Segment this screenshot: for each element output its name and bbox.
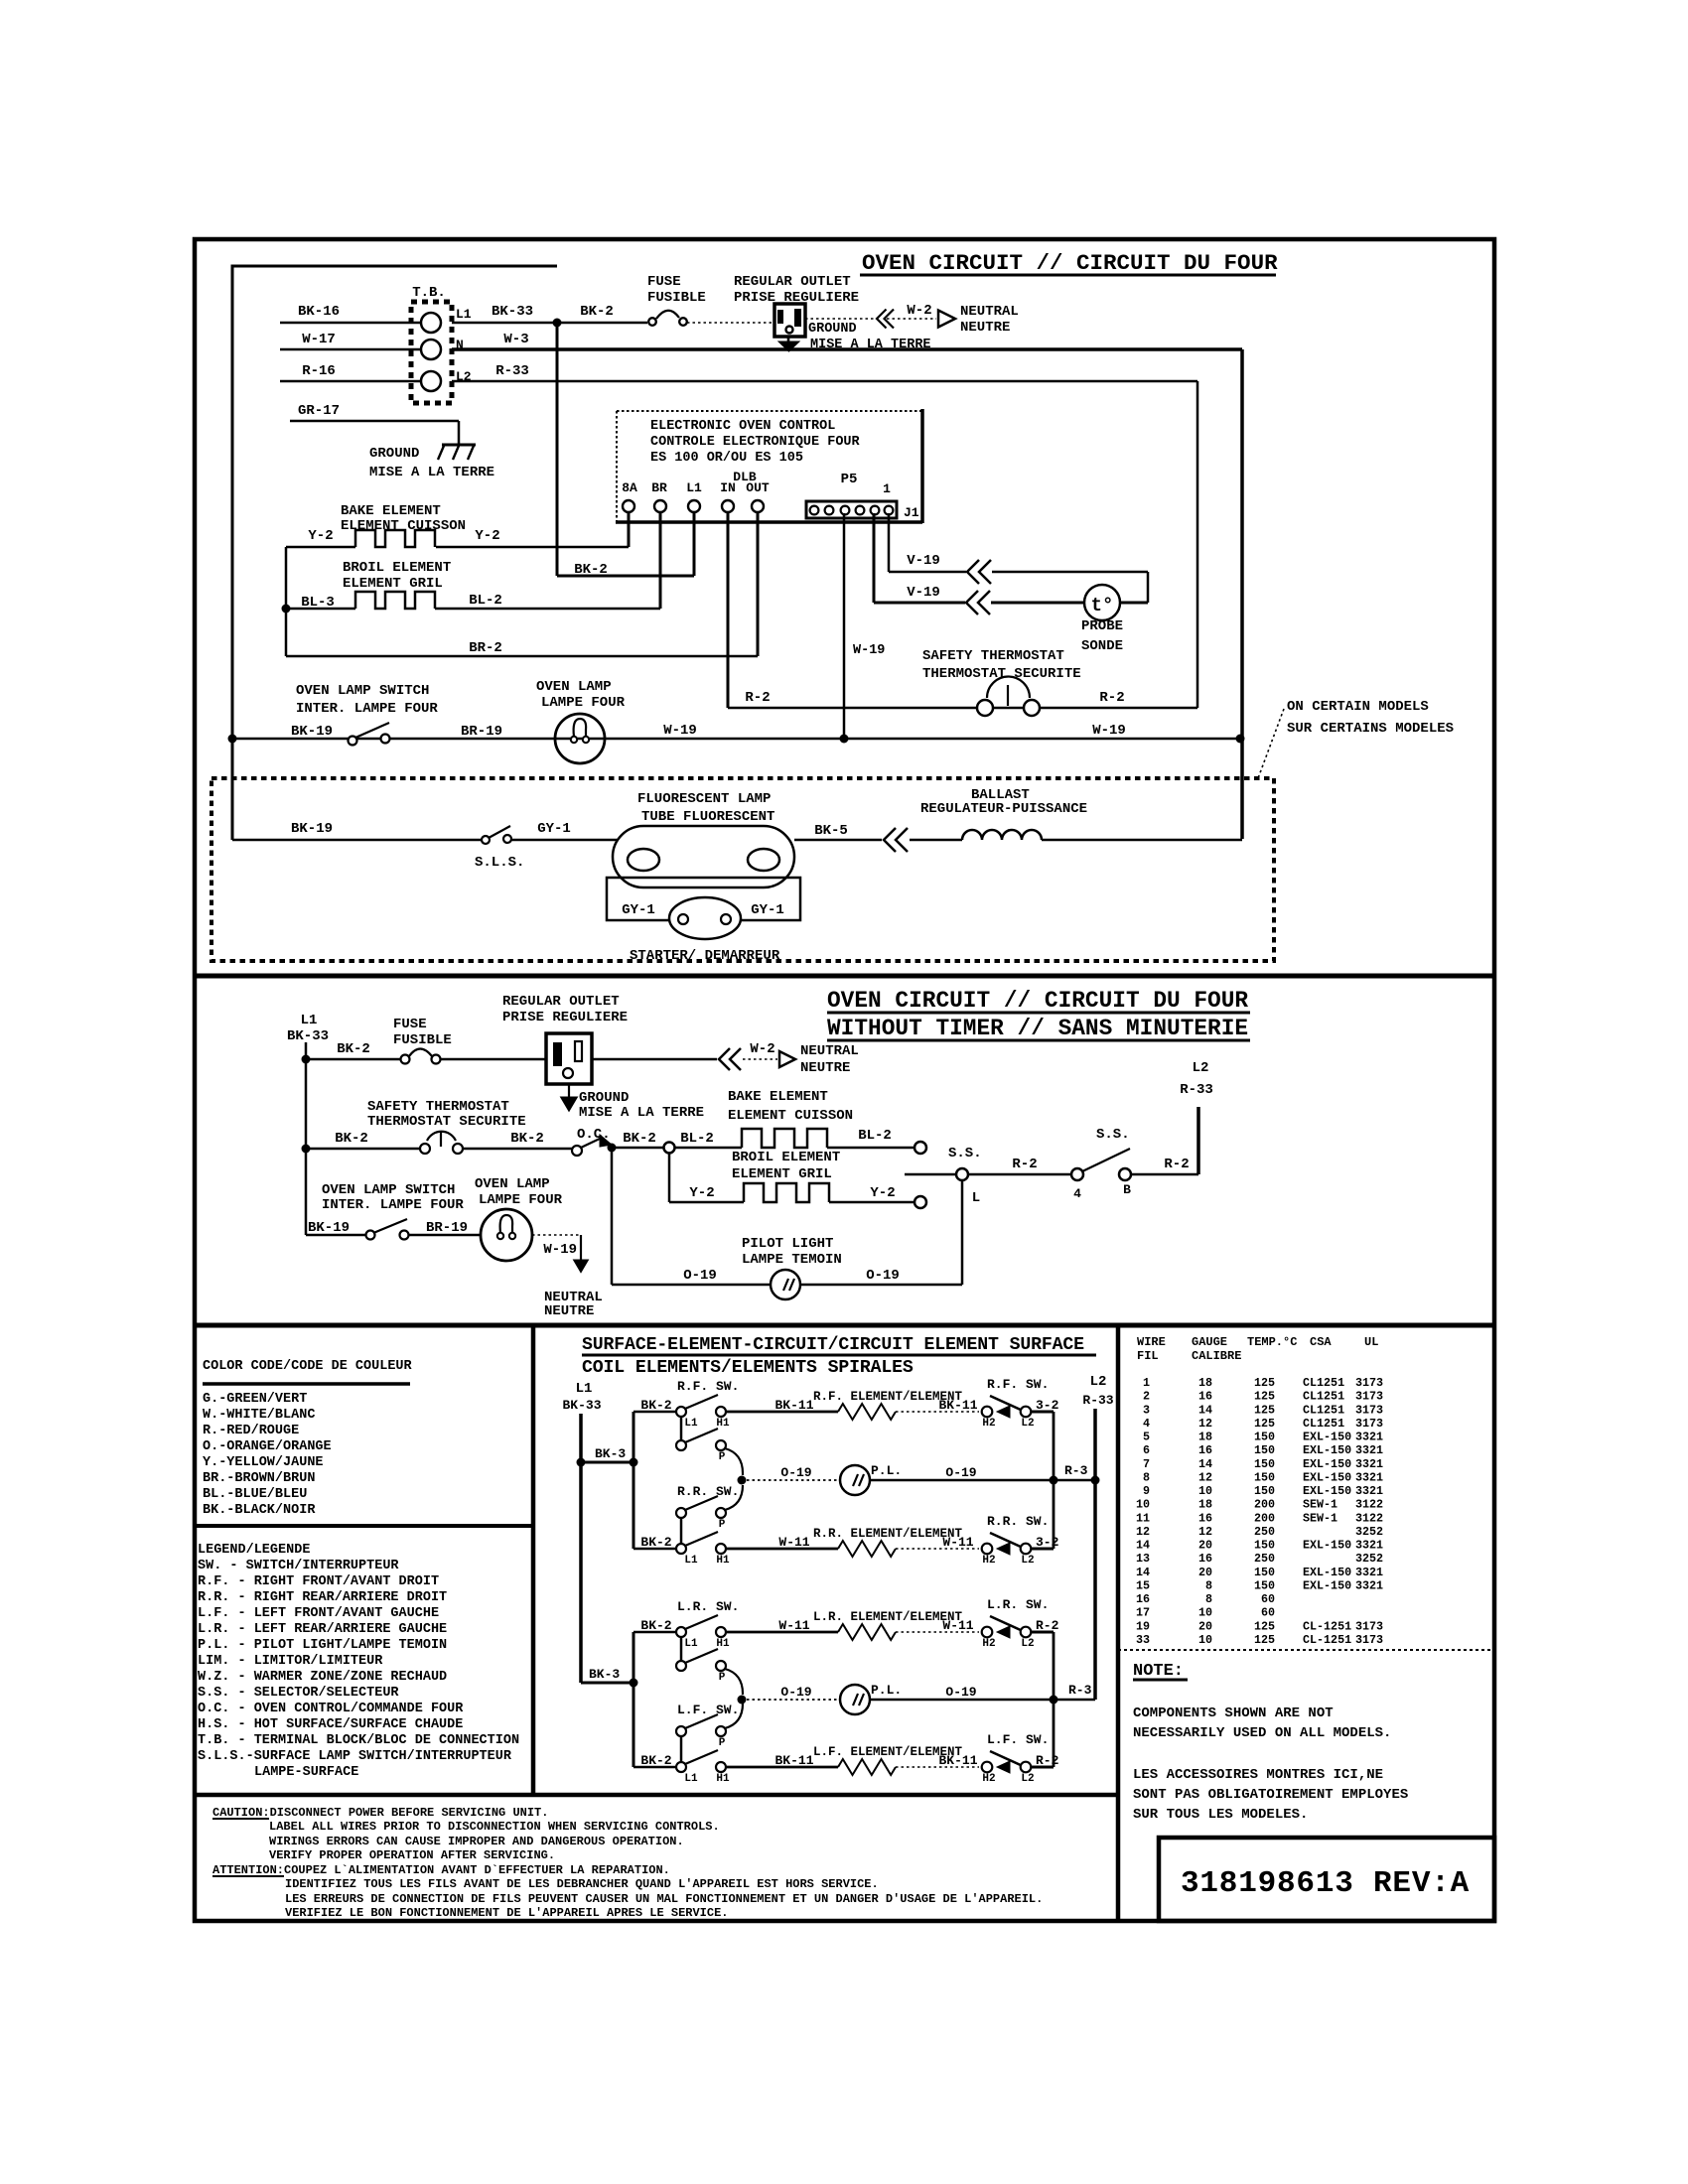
svg-text:EXL-150: EXL-150 bbox=[1303, 1539, 1351, 1553]
svg-text:3321: 3321 bbox=[1355, 1457, 1383, 1471]
svg-text:SUR TOUS LES MODELES.: SUR TOUS LES MODELES. bbox=[1133, 1807, 1308, 1823]
wire BK-3 upper bbox=[581, 1461, 633, 1464]
svg-text:CL1251: CL1251 bbox=[1303, 1403, 1344, 1417]
svg-text:L1: L1 bbox=[684, 1418, 698, 1430]
svg-text:EXL-150: EXL-150 bbox=[1303, 1566, 1351, 1579]
svg-text:R-3: R-3 bbox=[1068, 1683, 1092, 1698]
svg-text:O.C. - OVEN CONTROL/COMMANDE F: O.C. - OVEN CONTROL/COMMANDE FOUR bbox=[198, 1702, 464, 1716]
svg-text:W-19: W-19 bbox=[663, 723, 697, 739]
svg-text:P.L.: P.L. bbox=[871, 1463, 902, 1478]
svg-text:O-19: O-19 bbox=[683, 1268, 717, 1284]
node W-19 right junction bbox=[1236, 735, 1245, 744]
svg-text:t°: t° bbox=[1091, 595, 1114, 616]
svg-text:INTER. LAMPE FOUR: INTER. LAMPE FOUR bbox=[296, 701, 438, 717]
svg-text:R-3: R-3 bbox=[1064, 1463, 1088, 1478]
svg-text:16: 16 bbox=[1198, 1443, 1212, 1457]
divider color-code/legend bbox=[195, 1524, 533, 1528]
svg-text:L2: L2 bbox=[1193, 1060, 1209, 1076]
svg-text:8: 8 bbox=[1205, 1592, 1212, 1606]
svg-text:OVEN LAMP: OVEN LAMP bbox=[536, 679, 612, 695]
svg-text:GY-1: GY-1 bbox=[751, 902, 784, 918]
svg-text:3173: 3173 bbox=[1355, 1619, 1383, 1633]
svg-text:L.R. SW.: L.R. SW. bbox=[987, 1597, 1049, 1612]
svg-text:BK-16: BK-16 bbox=[298, 304, 340, 320]
svg-text:3173: 3173 bbox=[1355, 1376, 1383, 1390]
svg-text:W.Z. - WARMER ZONE/ZONE RECHAU: W.Z. - WARMER ZONE/ZONE RECHAUD bbox=[198, 1670, 447, 1685]
svg-text:VERIFY PROPER OPERATION AFTER: VERIFY PROPER OPERATION AFTER SERVICING. bbox=[269, 1848, 555, 1862]
pilot light line lower bbox=[738, 1696, 747, 1705]
svg-text:BK-33: BK-33 bbox=[492, 304, 533, 320]
svg-text:OVEN CIRCUIT // CIRCUIT DU FOU: OVEN CIRCUIT // CIRCUIT DU FOUR bbox=[862, 250, 1278, 276]
svg-text:SONT PAS OBLIGATOIREMENT EMPLO: SONT PAS OBLIGATOIREMENT EMPLOYES bbox=[1133, 1787, 1408, 1803]
svg-text:H2: H2 bbox=[982, 1555, 995, 1567]
svg-text:3321: 3321 bbox=[1355, 1566, 1383, 1579]
svg-text:LABEL ALL WIRES PRIOR TO DISCO: LABEL ALL WIRES PRIOR TO DISCONNECTION W… bbox=[269, 1820, 720, 1834]
ground symbol below outlet bbox=[787, 337, 790, 342]
svg-text:125: 125 bbox=[1254, 1376, 1275, 1390]
svg-text:WITHOUT TIMER // SANS MINUTERI: WITHOUT TIMER // SANS MINUTERIE bbox=[827, 1016, 1248, 1041]
svg-text:OVEN LAMP: OVEN LAMP bbox=[475, 1176, 550, 1192]
svg-text:IN: IN bbox=[720, 480, 736, 495]
svg-text:P.L.: P.L. bbox=[871, 1683, 902, 1698]
svg-text:LAMPE FOUR: LAMPE FOUR bbox=[479, 1192, 563, 1208]
svg-text:150: 150 bbox=[1254, 1578, 1275, 1592]
svg-text:Y-2: Y-2 bbox=[689, 1185, 714, 1201]
svg-text:FUSIBLE: FUSIBLE bbox=[647, 290, 706, 306]
node left lamp junction bbox=[228, 735, 237, 744]
bus L1 vertical bbox=[579, 1414, 583, 1683]
svg-text:5: 5 bbox=[1143, 1431, 1150, 1444]
svg-text:BK-19: BK-19 bbox=[308, 1220, 350, 1236]
svg-text:W-19: W-19 bbox=[853, 643, 885, 658]
switch lr-p pilot contacts bbox=[676, 1661, 686, 1671]
svg-text:GR-17: GR-17 bbox=[298, 403, 340, 419]
svg-text:18: 18 bbox=[1198, 1498, 1212, 1512]
svg-text:3173: 3173 bbox=[1355, 1633, 1383, 1647]
svg-text:FUSE: FUSE bbox=[393, 1017, 427, 1032]
svg-text:GY-1: GY-1 bbox=[537, 821, 571, 837]
svg-text:GY-1: GY-1 bbox=[622, 902, 655, 918]
svg-text:H2: H2 bbox=[982, 1418, 995, 1430]
wire fuse to outlet bbox=[687, 322, 774, 324]
svg-text:PROBE: PROBE bbox=[1081, 618, 1123, 634]
svg-text:150: 150 bbox=[1254, 1484, 1275, 1498]
svg-text:H1: H1 bbox=[716, 1555, 730, 1567]
svg-text:BK-19: BK-19 bbox=[291, 821, 333, 837]
dashed box on-certain-models bbox=[211, 778, 1274, 961]
svg-text:SEW-1: SEW-1 bbox=[1303, 1498, 1337, 1512]
svg-text:P.L. - PILOT LIGHT/LAMPE TEMOI: P.L. - PILOT LIGHT/LAMPE TEMOIN bbox=[198, 1638, 447, 1653]
svg-text:TEMP.°C: TEMP.°C bbox=[1247, 1335, 1297, 1349]
L.R. vertical L1 link bbox=[680, 1637, 683, 1661]
terminal circle broil right bbox=[914, 1196, 926, 1208]
wire BK-3 lower bbox=[581, 1682, 633, 1685]
svg-text:L2: L2 bbox=[1021, 1638, 1034, 1650]
wire W-2 neutral bbox=[805, 318, 874, 320]
svg-text:ELEMENT GRIL: ELEMENT GRIL bbox=[732, 1166, 832, 1182]
svg-text:OVEN LAMP SWITCH: OVEN LAMP SWITCH bbox=[322, 1182, 455, 1198]
svg-text:BK-2: BK-2 bbox=[337, 1041, 370, 1057]
svg-text:L1: L1 bbox=[684, 1555, 698, 1567]
node W-19/J1 junction bbox=[840, 735, 849, 744]
bus vertical lower group bbox=[633, 1632, 635, 1767]
svg-text:125: 125 bbox=[1254, 1619, 1275, 1633]
wire R-2 from pin IN bbox=[727, 512, 730, 708]
svg-text:BK-3: BK-3 bbox=[589, 1667, 620, 1682]
svg-text:318198613 REV:A: 318198613 REV:A bbox=[1181, 1866, 1470, 1901]
svg-text:FUSE: FUSE bbox=[647, 274, 681, 290]
svg-text:3122: 3122 bbox=[1355, 1498, 1383, 1512]
node O.C. junction bbox=[608, 1144, 617, 1153]
svg-text:250: 250 bbox=[1254, 1552, 1275, 1566]
wire BK-19 fluorescent bbox=[232, 839, 483, 842]
wire W-3 bbox=[452, 347, 1242, 351]
wire W-2 neutral 2 bbox=[592, 1058, 717, 1061]
svg-text:33: 33 bbox=[1136, 1633, 1150, 1647]
wire R-16 bbox=[280, 380, 421, 383]
svg-text:P: P bbox=[719, 1672, 726, 1684]
svg-text:REGULAR OUTLET: REGULAR OUTLET bbox=[734, 274, 851, 290]
switch lr right contacts bbox=[982, 1627, 993, 1638]
svg-text:EXL-150: EXL-150 bbox=[1303, 1470, 1351, 1484]
right circuit vertical lower bbox=[1053, 1632, 1055, 1767]
svg-text:NEUTRAL: NEUTRAL bbox=[800, 1043, 859, 1059]
wire V-19 lower bbox=[873, 513, 876, 603]
svg-text:S.S. - SELECTOR/SELECTEUR: S.S. - SELECTOR/SELECTEUR bbox=[198, 1686, 399, 1701]
terminal L2 bbox=[421, 371, 441, 391]
divider below oven circuit section bbox=[195, 974, 1494, 979]
svg-text:2: 2 bbox=[1143, 1390, 1150, 1404]
svg-text:L.F. SW.: L.F. SW. bbox=[677, 1703, 739, 1717]
svg-text:10: 10 bbox=[1198, 1606, 1212, 1620]
svg-text:ELECTRONIC OVEN CONTROL: ELECTRONIC OVEN CONTROL bbox=[650, 419, 835, 434]
svg-text:W-19: W-19 bbox=[1092, 723, 1126, 739]
vertical divider surface/table bbox=[1116, 1325, 1121, 1921]
svg-text:LEGEND/LEGENDE: LEGEND/LEGENDE bbox=[198, 1543, 310, 1558]
svg-text:COMPONENTS SHOWN ARE NOT: COMPONENTS SHOWN ARE NOT bbox=[1133, 1706, 1334, 1721]
svg-text:R.F. - RIGHT FRONT/AVANT DROIT: R.F. - RIGHT FRONT/AVANT DROIT bbox=[198, 1574, 439, 1589]
svg-text:T.B. - TERMINAL BLOCK/BLOC DE: T.B. - TERMINAL BLOCK/BLOC DE CONNECTION bbox=[198, 1733, 519, 1748]
svg-text:OVEN CIRCUIT // CIRCUIT DU FOU: OVEN CIRCUIT // CIRCUIT DU FOUR bbox=[827, 988, 1248, 1014]
svg-text:3321: 3321 bbox=[1355, 1470, 1383, 1484]
svg-text:BL.-BLUE/BLEU: BL.-BLUE/BLEU bbox=[203, 1487, 307, 1502]
svg-text:3122: 3122 bbox=[1355, 1511, 1383, 1525]
svg-text:VERIFIEZ LE BON FONCTIONNEMENT: VERIFIEZ LE BON FONCTIONNEMENT DE L'APPA… bbox=[285, 1906, 728, 1920]
svg-text:L1: L1 bbox=[576, 1381, 593, 1397]
svg-text:R-2: R-2 bbox=[1012, 1157, 1037, 1172]
svg-text:1: 1 bbox=[883, 481, 891, 496]
svg-text:GROUND: GROUND bbox=[808, 322, 857, 337]
svg-text:12: 12 bbox=[1136, 1525, 1150, 1539]
wire BK-2 to fuse bbox=[557, 322, 647, 325]
svg-text:Y-2: Y-2 bbox=[308, 528, 333, 544]
svg-text:12: 12 bbox=[1198, 1470, 1212, 1484]
node junction BK-33/BK-2 bbox=[553, 319, 562, 328]
node BL-3 junction bbox=[282, 605, 291, 614]
svg-text:STARTER/ DEMARREUR: STARTER/ DEMARREUR bbox=[630, 948, 780, 964]
svg-text:R.F. SW.: R.F. SW. bbox=[987, 1377, 1049, 1392]
svg-text:MISE A LA TERRE: MISE A LA TERRE bbox=[579, 1105, 704, 1121]
svg-text:ELEMENT CUISSON: ELEMENT CUISSON bbox=[728, 1108, 853, 1124]
svg-text:14: 14 bbox=[1198, 1403, 1212, 1417]
part number box bbox=[1159, 1838, 1494, 1921]
svg-text:12: 12 bbox=[1198, 1525, 1212, 1539]
svg-text:PRISE REGULIERE: PRISE REGULIERE bbox=[502, 1010, 628, 1025]
svg-text:BK.-BLACK/NOIR: BK.-BLACK/NOIR bbox=[203, 1503, 316, 1518]
wire to broil bbox=[668, 1154, 671, 1202]
svg-text:3321: 3321 bbox=[1355, 1443, 1383, 1457]
svg-text:R.F. SW.: R.F. SW. bbox=[677, 1379, 739, 1394]
svg-text:INTER. LAMPE FOUR: INTER. LAMPE FOUR bbox=[322, 1197, 464, 1213]
switch rr-p pilot contacts bbox=[676, 1508, 686, 1518]
svg-text:3252: 3252 bbox=[1355, 1552, 1383, 1566]
svg-text:BL-2: BL-2 bbox=[680, 1131, 714, 1147]
svg-text:L.F. SW.: L.F. SW. bbox=[987, 1732, 1049, 1747]
svg-text:EXL-150: EXL-150 bbox=[1303, 1443, 1351, 1457]
svg-text:IDENTIFIEZ TOUS LES FILS AVANT: IDENTIFIEZ TOUS LES FILS AVANT DE LES DE… bbox=[285, 1877, 879, 1891]
svg-text:S.L.S.: S.L.S. bbox=[475, 855, 524, 871]
svg-text:OUT: OUT bbox=[746, 480, 770, 495]
svg-text:W-3: W-3 bbox=[503, 332, 528, 347]
svg-text:L1: L1 bbox=[456, 307, 472, 322]
terminal N bbox=[421, 340, 441, 359]
svg-text:150: 150 bbox=[1254, 1470, 1275, 1484]
svg-text:FIL: FIL bbox=[1137, 1349, 1159, 1363]
svg-text:O-19: O-19 bbox=[945, 1685, 976, 1700]
svg-text:V-19: V-19 bbox=[907, 585, 940, 601]
page outer border frame bbox=[195, 239, 1494, 1921]
svg-text:BROIL ELEMENT: BROIL ELEMENT bbox=[343, 560, 451, 576]
svg-text:BR: BR bbox=[651, 480, 667, 495]
svg-text:MISE A LA TERRE: MISE A LA TERRE bbox=[369, 465, 494, 480]
svg-text:BK-33: BK-33 bbox=[287, 1028, 329, 1044]
switch rf-p pilot contacts bbox=[676, 1440, 686, 1450]
svg-text:THERMOSTAT SECURITE: THERMOSTAT SECURITE bbox=[922, 666, 1081, 682]
svg-text:R-33: R-33 bbox=[495, 363, 529, 379]
switch rr right contacts bbox=[982, 1544, 993, 1555]
svg-text:16: 16 bbox=[1198, 1511, 1212, 1525]
svg-text:NEUTRE: NEUTRE bbox=[800, 1060, 850, 1076]
svg-text:B: B bbox=[1123, 1182, 1131, 1197]
svg-text:BR-19: BR-19 bbox=[461, 724, 502, 740]
svg-text:L.R. ELEMENT/ELEMENT: L.R. ELEMENT/ELEMENT bbox=[813, 1610, 963, 1624]
svg-text:BAKE ELEMENT: BAKE ELEMENT bbox=[341, 503, 441, 519]
svg-text:SURFACE-ELEMENT-CIRCUIT/CIRCUI: SURFACE-ELEMENT-CIRCUIT/CIRCUIT ELEMENT … bbox=[582, 1335, 1084, 1355]
svg-text:16: 16 bbox=[1198, 1390, 1212, 1404]
svg-text:OVEN LAMP SWITCH: OVEN LAMP SWITCH bbox=[296, 683, 429, 699]
svg-text:18: 18 bbox=[1198, 1431, 1212, 1444]
svg-text:14: 14 bbox=[1136, 1566, 1150, 1579]
svg-text:T.B.: T.B. bbox=[412, 285, 446, 301]
svg-text:REGULATEUR-PUISSANCE: REGULATEUR-PUISSANCE bbox=[920, 801, 1087, 817]
svg-text:4: 4 bbox=[1073, 1186, 1081, 1201]
svg-text:REGULAR OUTLET: REGULAR OUTLET bbox=[502, 994, 620, 1010]
R.R. vertical L1 link bbox=[680, 1518, 683, 1544]
svg-text:BK-33: BK-33 bbox=[562, 1398, 601, 1413]
svg-text:NEUTRAL: NEUTRAL bbox=[960, 304, 1019, 320]
svg-text:S.S.: S.S. bbox=[948, 1146, 982, 1161]
svg-text:BK-19: BK-19 bbox=[291, 724, 333, 740]
svg-text:W-11: W-11 bbox=[942, 1535, 973, 1550]
L.F. vertical L1 link bbox=[680, 1736, 683, 1762]
svg-text:GROUND: GROUND bbox=[579, 1090, 629, 1106]
svg-text:TUBE FLUORESCENT: TUBE FLUORESCENT bbox=[641, 809, 774, 825]
svg-text:UL: UL bbox=[1364, 1335, 1378, 1349]
svg-text:O-19: O-19 bbox=[780, 1465, 811, 1480]
svg-text:Y-2: Y-2 bbox=[870, 1185, 895, 1201]
svg-text:LES ERREURS DE CONNECTION DE F: LES ERREURS DE CONNECTION DE FILS PEUVEN… bbox=[285, 1892, 1043, 1906]
svg-text:6: 6 bbox=[1143, 1443, 1150, 1457]
svg-text:EXL-150: EXL-150 bbox=[1303, 1431, 1351, 1444]
svg-text:V-19: V-19 bbox=[907, 553, 940, 569]
svg-text:R-16: R-16 bbox=[302, 363, 336, 379]
svg-text:P: P bbox=[719, 1519, 726, 1531]
svg-text:8A: 8A bbox=[622, 480, 637, 495]
svg-text:SEW-1: SEW-1 bbox=[1303, 1511, 1337, 1525]
svg-text:ELEMENT GRIL: ELEMENT GRIL bbox=[343, 576, 443, 592]
svg-text:H1: H1 bbox=[716, 1418, 730, 1430]
svg-text:12: 12 bbox=[1198, 1417, 1212, 1431]
wire Y-2 bake to pin 8A bbox=[628, 512, 631, 547]
svg-text:L2: L2 bbox=[1021, 1555, 1034, 1567]
svg-text:14: 14 bbox=[1198, 1457, 1212, 1471]
wire BL-2 to pin BR bbox=[435, 608, 660, 611]
svg-text:GROUND: GROUND bbox=[369, 446, 419, 462]
switch lf-p pilot contacts bbox=[676, 1726, 686, 1736]
svg-text:BK-2: BK-2 bbox=[335, 1131, 368, 1147]
svg-text:BL-2: BL-2 bbox=[858, 1128, 892, 1144]
svg-text:BK-5: BK-5 bbox=[814, 823, 848, 839]
svg-text:R-2: R-2 bbox=[1099, 690, 1124, 706]
svg-text:W.-WHITE/BLANC: W.-WHITE/BLANC bbox=[203, 1408, 315, 1423]
svg-text:LES ACCESSOIRES MONTRES ICI,NE: LES ACCESSOIRES MONTRES ICI,NE bbox=[1133, 1767, 1383, 1783]
svg-text:125: 125 bbox=[1254, 1403, 1275, 1417]
surface lamp switch S.L.S. bbox=[482, 836, 490, 844]
svg-text:ES 100 OR/OU ES 105: ES 100 OR/OU ES 105 bbox=[650, 451, 803, 466]
probe temperature sensor bbox=[1120, 602, 1148, 605]
electronic oven control U1 box bbox=[617, 410, 922, 412]
divider above caution block bbox=[195, 1793, 1118, 1798]
svg-text:Y.-YELLOW/JAUNE: Y.-YELLOW/JAUNE bbox=[203, 1455, 324, 1470]
svg-text:O-19: O-19 bbox=[866, 1268, 900, 1284]
svg-text:8: 8 bbox=[1143, 1470, 1150, 1484]
svg-text:G.-GREEN/VERT: G.-GREEN/VERT bbox=[203, 1392, 307, 1407]
svg-text:3252: 3252 bbox=[1355, 1525, 1383, 1539]
svg-text:O.-ORANGE/ORANGE: O.-ORANGE/ORANGE bbox=[203, 1439, 332, 1454]
svg-text:L.R. SW.: L.R. SW. bbox=[677, 1599, 739, 1614]
svg-text:150: 150 bbox=[1254, 1566, 1275, 1579]
svg-text:11: 11 bbox=[1136, 1511, 1150, 1525]
svg-text:BAKE ELEMENT: BAKE ELEMENT bbox=[728, 1089, 828, 1105]
svg-text:P: P bbox=[719, 1451, 726, 1463]
svg-text:250: 250 bbox=[1254, 1525, 1275, 1539]
vertical divider legend/surface bbox=[531, 1325, 536, 1795]
svg-text:10: 10 bbox=[1198, 1633, 1212, 1647]
wire R-33 bbox=[452, 380, 1197, 383]
divider below without-timer section bbox=[195, 1323, 1494, 1328]
svg-text:CL-1251: CL-1251 bbox=[1303, 1633, 1351, 1647]
svg-text:150: 150 bbox=[1254, 1431, 1275, 1444]
svg-text:EXL-150: EXL-150 bbox=[1303, 1484, 1351, 1498]
starter DEMARREUR bbox=[669, 897, 741, 939]
svg-text:SAFETY THERMOSTAT: SAFETY THERMOSTAT bbox=[367, 1099, 509, 1115]
svg-text:H.S. - HOT SURFACE/SURFACE CHA: H.S. - HOT SURFACE/SURFACE CHAUDE bbox=[198, 1717, 463, 1732]
svg-text:R.R. SW.: R.R. SW. bbox=[677, 1484, 739, 1499]
svg-text:R-2: R-2 bbox=[745, 690, 770, 706]
svg-text:L: L bbox=[972, 1190, 980, 1206]
svg-text:125: 125 bbox=[1254, 1417, 1275, 1431]
svg-text:3173: 3173 bbox=[1355, 1390, 1383, 1404]
svg-text:CAUTION:DISCONNECT POWER BEFOR: CAUTION:DISCONNECT POWER BEFORE SERVICIN… bbox=[212, 1806, 548, 1820]
svg-text:LAMPE FOUR: LAMPE FOUR bbox=[541, 695, 626, 711]
svg-text:S.S.: S.S. bbox=[1096, 1127, 1130, 1143]
svg-text:BK-3: BK-3 bbox=[595, 1446, 626, 1461]
svg-text:LIM. - LIMITOR/LIMITEUR: LIM. - LIMITOR/LIMITEUR bbox=[198, 1654, 383, 1669]
svg-text:CONTROLE ELECTRONIQUE FOUR: CONTROLE ELECTRONIQUE FOUR bbox=[650, 435, 861, 450]
svg-text:S.L.S.-SURFACE LAMP SWITCH/INT: S.L.S.-SURFACE LAMP SWITCH/INTERRUPTEUR bbox=[198, 1749, 512, 1764]
wire W-17 bbox=[280, 348, 421, 351]
svg-text:H1: H1 bbox=[716, 1638, 730, 1650]
wire from bake down left bbox=[285, 547, 288, 656]
svg-text:BR-19: BR-19 bbox=[426, 1220, 468, 1236]
right circuit vertical upper bbox=[1053, 1412, 1055, 1549]
svg-text:17: 17 bbox=[1136, 1606, 1150, 1620]
svg-text:3321: 3321 bbox=[1355, 1484, 1383, 1498]
svg-text:FLUORESCENT LAMP: FLUORESCENT LAMP bbox=[637, 791, 771, 807]
svg-text:W-2: W-2 bbox=[750, 1041, 774, 1057]
svg-text:18: 18 bbox=[1198, 1376, 1212, 1390]
svg-text:1: 1 bbox=[1143, 1376, 1150, 1390]
svg-text:H2: H2 bbox=[982, 1773, 995, 1785]
svg-text:H2: H2 bbox=[982, 1638, 995, 1650]
svg-text:P: P bbox=[719, 1737, 726, 1749]
terminal L1 bbox=[421, 313, 441, 333]
svg-text:W-19: W-19 bbox=[543, 1242, 577, 1258]
svg-text:CL1251: CL1251 bbox=[1303, 1376, 1344, 1390]
svg-text:NECESSARILY USED ON ALL MODELS: NECESSARILY USED ON ALL MODELS. bbox=[1133, 1725, 1391, 1741]
svg-text:R-2: R-2 bbox=[1164, 1157, 1189, 1172]
svg-text:CL-1251: CL-1251 bbox=[1303, 1619, 1351, 1633]
wire to pilot light bbox=[611, 1148, 614, 1285]
svg-text:BR-2: BR-2 bbox=[469, 640, 502, 656]
svg-text:LAMPE-SURFACE: LAMPE-SURFACE bbox=[254, 1765, 358, 1780]
svg-text:L.F. - LEFT FRONT/AVANT GAUCHE: L.F. - LEFT FRONT/AVANT GAUCHE bbox=[198, 1606, 439, 1621]
svg-text:3321: 3321 bbox=[1355, 1578, 1383, 1592]
svg-text:R-33: R-33 bbox=[1180, 1082, 1213, 1098]
svg-text:CL1251: CL1251 bbox=[1303, 1417, 1344, 1431]
svg-text:L1: L1 bbox=[684, 1773, 698, 1785]
svg-text:BROIL ELEMENT: BROIL ELEMENT bbox=[732, 1150, 840, 1165]
wire BK-33 bbox=[452, 322, 557, 325]
svg-text:CALIBRE: CALIBRE bbox=[1192, 1349, 1241, 1363]
wire W-19 to neutral 2 bbox=[532, 1234, 581, 1236]
svg-text:GAUGE: GAUGE bbox=[1192, 1335, 1227, 1349]
svg-text:125: 125 bbox=[1254, 1390, 1275, 1404]
wire W-3 vertical right bbox=[1240, 349, 1244, 839]
svg-text:BK-2: BK-2 bbox=[510, 1131, 544, 1147]
switch rf right contacts bbox=[982, 1407, 993, 1418]
svg-text:L2: L2 bbox=[1090, 1374, 1107, 1390]
svg-text:BK-2: BK-2 bbox=[580, 304, 614, 320]
svg-text:PILOT LIGHT: PILOT LIGHT bbox=[742, 1236, 833, 1252]
svg-text:J1: J1 bbox=[904, 505, 919, 520]
svg-text:R-33: R-33 bbox=[1082, 1393, 1113, 1408]
svg-text:20: 20 bbox=[1198, 1619, 1212, 1633]
wire BK-2 vertical from BK-33 junction bbox=[556, 323, 559, 576]
pilot light line upper bbox=[738, 1476, 747, 1485]
svg-text:10: 10 bbox=[1136, 1498, 1150, 1512]
svg-text:20: 20 bbox=[1198, 1566, 1212, 1579]
